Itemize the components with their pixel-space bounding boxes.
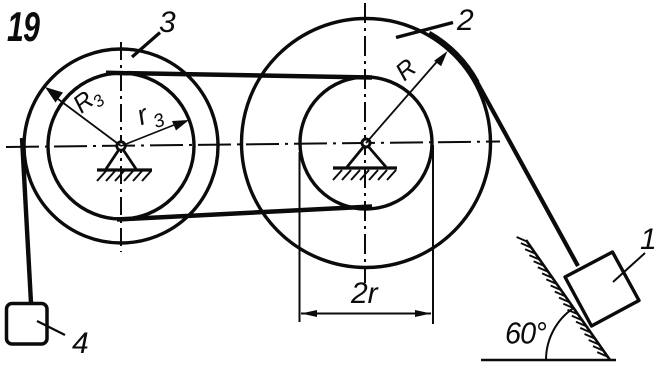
dimension extension line left xyxy=(299,152,301,322)
pulley 3 inner circle xyxy=(48,73,194,219)
svg-text:2r: 2r xyxy=(350,277,379,310)
vertical center line pulley 2 xyxy=(364,3,366,283)
pulley 2 inner circle xyxy=(300,77,432,209)
ground line xyxy=(481,359,616,362)
pivot support pulley 2 xyxy=(333,145,397,168)
pivot hatching pulley 3 xyxy=(97,171,151,181)
block 1 xyxy=(565,252,639,326)
label R xyxy=(390,53,422,86)
weight 4 xyxy=(7,304,48,345)
pivot hatching pulley 2 xyxy=(333,170,396,180)
horizontal center line xyxy=(6,142,500,148)
leader line label 4 xyxy=(37,321,65,335)
incline surface xyxy=(526,240,610,360)
pivot pin pulley 2 xyxy=(362,139,370,147)
pivot pin pulley 3 xyxy=(117,142,125,150)
dimension extension line right xyxy=(432,145,434,324)
radius arrow r3 xyxy=(121,121,184,146)
svg-text:3: 3 xyxy=(159,6,176,39)
label r3 xyxy=(133,94,169,138)
rope to weight 4 xyxy=(22,138,31,303)
angle arc 60 deg xyxy=(546,308,573,360)
pulley 2 outer circle xyxy=(242,19,491,268)
svg-text:2: 2 xyxy=(456,4,474,37)
svg-text:1: 1 xyxy=(640,223,657,256)
leader line label 1 xyxy=(613,253,645,282)
leader line label 3 xyxy=(132,33,160,58)
svg-text:4: 4 xyxy=(72,327,89,360)
dimension arrow right xyxy=(415,310,431,317)
rope wrap on pulley 2 xyxy=(429,33,477,82)
incline hatching xyxy=(517,237,608,357)
radius arrow R xyxy=(366,57,441,143)
radius arrow R3 xyxy=(50,93,121,146)
vertical center line pulley 3 xyxy=(120,42,122,252)
pulley 3 outer circle xyxy=(24,49,218,243)
pivot support pulley 3 xyxy=(97,148,152,170)
belt bottom run xyxy=(117,207,372,220)
dimension line 2r xyxy=(301,313,431,315)
figure number 19 xyxy=(7,3,40,50)
rope to block 1 xyxy=(477,82,578,266)
svg-text:19: 19 xyxy=(7,3,40,50)
belt top run xyxy=(106,73,372,78)
label R3 xyxy=(68,80,109,122)
label 60 deg xyxy=(505,317,547,351)
leader line label 2 xyxy=(396,23,453,38)
dimension arrow left xyxy=(301,310,317,317)
svg-text:60°: 60° xyxy=(505,317,547,351)
